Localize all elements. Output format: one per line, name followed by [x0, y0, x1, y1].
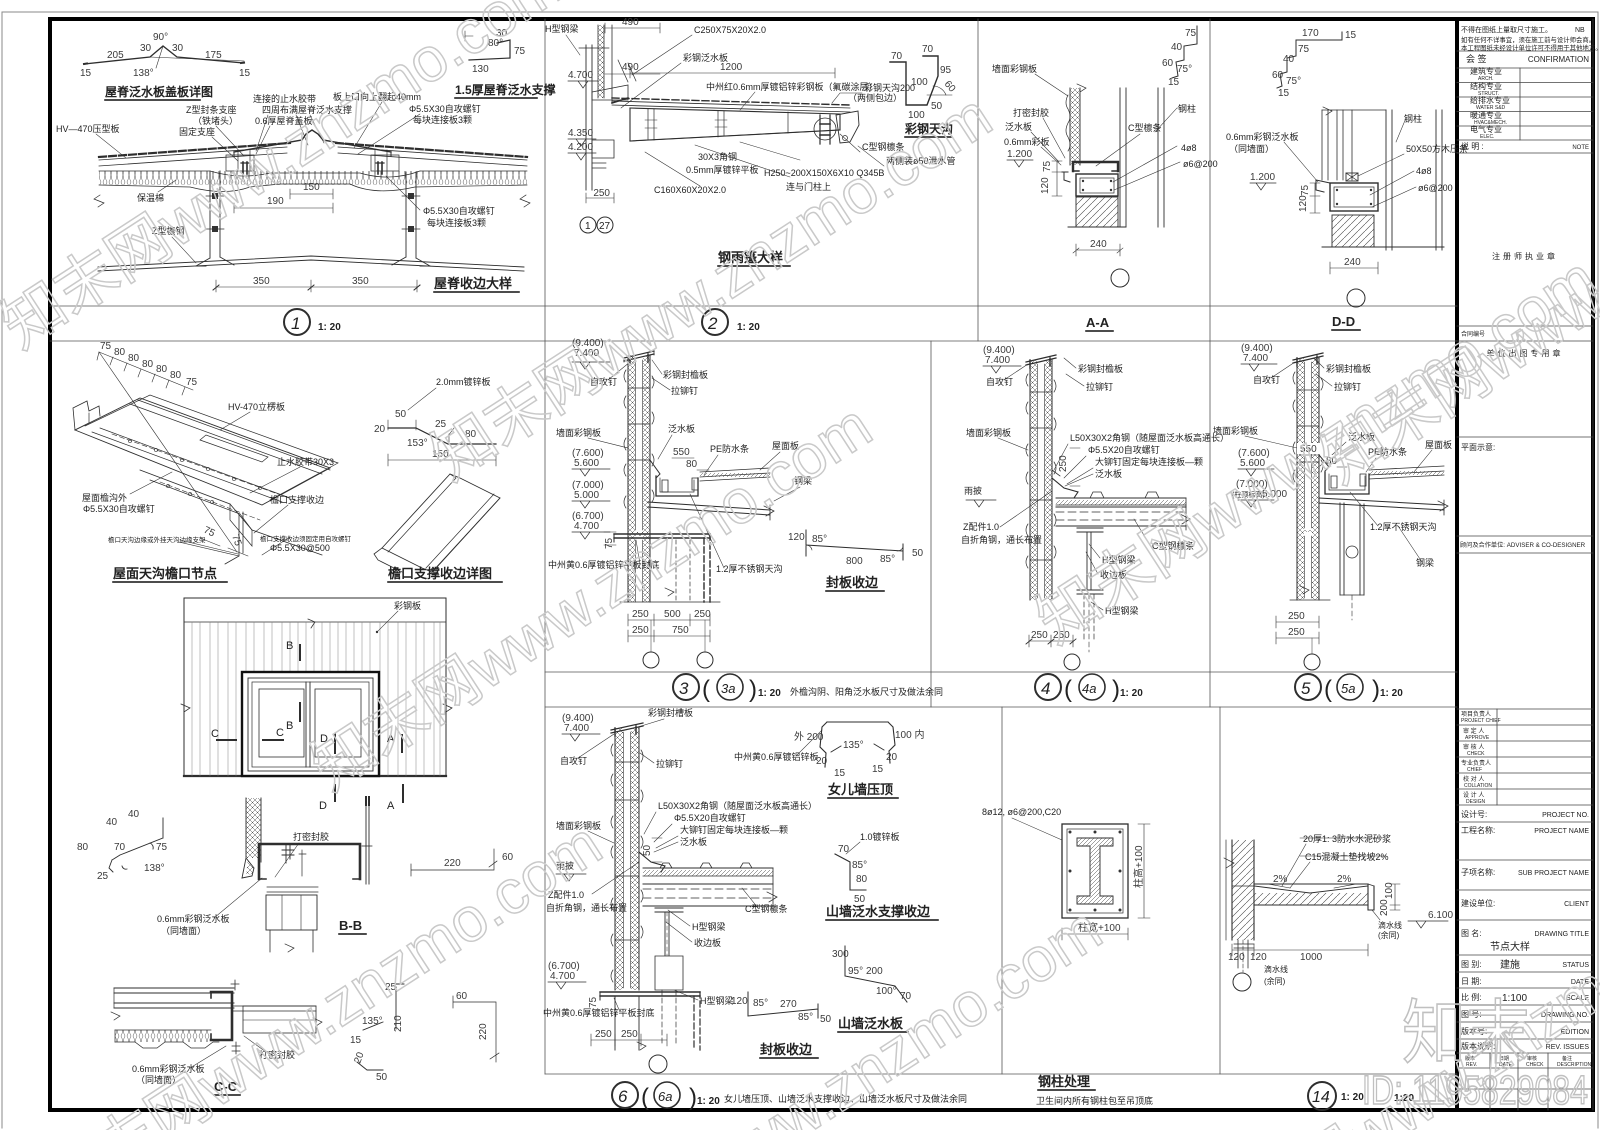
- svg-text:彩钢封檐板: 彩钢封檐板: [663, 369, 708, 380]
- svg-text:PROJECT NO.: PROJECT NO.: [1542, 812, 1589, 819]
- title: [760, 1042, 813, 1057]
- svg-text:柱高+100: 柱高+100: [1132, 845, 1145, 888]
- svg-text:(: (: [1064, 676, 1072, 703]
- flashing profile top right: [1172, 26, 1197, 78]
- right dims: [1390, 884, 1400, 910]
- dim 220/60 right: [411, 849, 497, 876]
- H column under (I elevation): [1077, 528, 1103, 532]
- svg-text:120: 120: [731, 996, 748, 1007]
- slab: [1254, 884, 1368, 893]
- C purlin above beam (thick): [1073, 162, 1118, 171]
- canopy top panel sloping: [612, 101, 850, 112]
- title D-D: [1332, 314, 1355, 329]
- gutter channel: [1325, 472, 1369, 494]
- svg-text:C: C: [211, 728, 219, 740]
- bottom chord sloped: [98, 256, 524, 271]
- svg-text:大铆钉固定每块连接板—颗: 大铆钉固定每块连接板—颗: [1095, 456, 1203, 467]
- svg-text:80: 80: [142, 359, 154, 370]
- svg-text:): ): [689, 1084, 697, 1111]
- svg-text:8ø12, ø6@200,C20: 8ø12, ø6@200,C20: [982, 807, 1061, 817]
- svg-text:120: 120: [788, 532, 805, 543]
- svg-text:20: 20: [374, 424, 386, 435]
- PE & roof labels: [710, 440, 812, 486]
- dim 240: [1330, 262, 1378, 274]
- svg-text:50X50方木压条: 50X50方木压条: [1406, 143, 1468, 154]
- right post: [406, 172, 416, 258]
- wall below with studs: [1238, 940, 1248, 968]
- eave edge drop piece: [225, 512, 243, 564]
- outer concrete rect: [1062, 824, 1128, 918]
- lower wall: [1297, 530, 1319, 600]
- section letters: [211, 640, 395, 812]
- svg-text:138°: 138°: [133, 68, 154, 79]
- leader lines top cluster: [212, 102, 420, 161]
- svg-text:15: 15: [872, 764, 884, 775]
- svg-text:1: 20: 1: 20: [1380, 688, 1403, 699]
- svg-text:APPROVE: APPROVE: [1465, 735, 1490, 741]
- svg-text:4.200: 4.200: [568, 142, 593, 153]
- svg-text:会 签: 会 签: [1466, 53, 1487, 64]
- svg-text:1.5厚屋脊泛水支撑: 1.5厚屋脊泛水支撑: [455, 82, 556, 97]
- bubble 1: [284, 309, 310, 335]
- svg-text:5.600: 5.600: [574, 458, 599, 469]
- svg-text:L50X30X2角钢（随屋面泛水板高通长）: L50X30X2角钢（随屋面泛水板高通长）: [1070, 432, 1229, 443]
- beam: [1319, 498, 1444, 510]
- svg-text:中州黄0.6厚镀铝锌板: 中州黄0.6厚镀铝锌板: [734, 751, 819, 762]
- svg-text:15: 15: [80, 68, 92, 79]
- insulation band with wavy bottom: [115, 1030, 211, 1042]
- svg-text:如有任何不详事宜，须在施工前与设计师会商。: 如有任何不详事宜，须在施工前与设计师会商。: [1461, 35, 1595, 44]
- leaders: [621, 35, 884, 186]
- svg-text:校 对 人: 校 对 人: [1463, 775, 1484, 783]
- svg-text:墙面彩钢板: 墙面彩钢板: [556, 427, 601, 438]
- svg-text:15: 15: [1168, 77, 1180, 88]
- svg-text:ø6@200: ø6@200: [1183, 159, 1218, 169]
- svg-text:山墙泛水支撑收边: 山墙泛水支撑收边: [826, 904, 931, 919]
- hatched wall strip: [246, 798, 261, 858]
- levels: [1232, 343, 1287, 500]
- title: ridge edge detail: [434, 276, 512, 291]
- svg-text:C15混凝土垫找坡2%: C15混凝土垫找坡2%: [1305, 851, 1389, 862]
- labels H beam area: [961, 521, 1195, 616]
- svg-text:C型檩条: C型檩条: [1128, 122, 1162, 133]
- H column label: [545, 23, 579, 34]
- svg-text:138°: 138°: [144, 863, 165, 874]
- levels: [548, 713, 594, 982]
- bubbles 4 (4a): [1035, 674, 1061, 700]
- svg-text:70: 70: [922, 44, 934, 55]
- title: [214, 1079, 238, 1094]
- svg-text:B: B: [286, 640, 293, 652]
- svg-text:钢柱: 钢柱: [1178, 103, 1196, 114]
- svg-text:75: 75: [156, 842, 168, 853]
- labels: [132, 1049, 295, 1085]
- bottom label: [543, 1007, 655, 1018]
- svg-text:75°: 75°: [1177, 64, 1192, 75]
- svg-text:75: 75: [1185, 28, 1197, 39]
- canopy tapered beam: [630, 108, 840, 141]
- dims: [591, 1034, 667, 1046]
- svg-text:封板收边: 封板收边: [826, 575, 879, 590]
- svg-text:14: 14: [1312, 1089, 1330, 1106]
- svg-text:中州红0.6mm厚镀铝锌彩钢板（氟碳涂层）: 中州红0.6mm厚镀铝锌彩钢板（氟碳涂层）: [706, 81, 878, 92]
- svg-text:专业负责人: 专业负责人: [1461, 759, 1491, 767]
- gutter channel going down right: [140, 470, 322, 555]
- title: [826, 575, 879, 590]
- flashing at gutter top: [650, 460, 660, 478]
- wall panel faces horizontal: [114, 988, 234, 1008]
- svg-text:240: 240: [1344, 257, 1361, 268]
- svg-text:大铆钉固定每块连接板—颗: 大铆钉固定每块连接板—颗: [680, 824, 788, 835]
- wall: [1297, 358, 1319, 530]
- svg-text:70: 70: [114, 842, 126, 853]
- bottom dims: [1029, 635, 1073, 647]
- svg-text:DRAWING TITLE: DRAWING TITLE: [1535, 931, 1590, 938]
- masonry below: [1332, 215, 1374, 247]
- svg-text:15: 15: [1345, 30, 1357, 41]
- svg-text:60: 60: [456, 991, 468, 1002]
- mullion: [306, 682, 310, 767]
- svg-text:95°: 95°: [848, 966, 863, 977]
- svg-text:4.700: 4.700: [568, 70, 593, 81]
- drip label below: [1264, 964, 1288, 986]
- level 6.100: [1428, 910, 1453, 921]
- small profile with 135: [357, 984, 404, 1070]
- svg-text:15: 15: [834, 768, 846, 779]
- svg-text:170: 170: [1302, 28, 1319, 39]
- labels: [964, 363, 1123, 496]
- I-beam inside: [1077, 838, 1113, 904]
- svg-text:80: 80: [156, 364, 168, 375]
- bottom dims: [1232, 944, 1368, 956]
- base flashing: [639, 852, 665, 872]
- svg-text:Φ5.5X30自攻螺钉: Φ5.5X30自攻螺钉: [83, 503, 155, 514]
- svg-text:5: 5: [1301, 679, 1311, 698]
- svg-text:泛水板: 泛水板: [1095, 468, 1122, 479]
- svg-text:85°: 85°: [852, 860, 867, 871]
- svg-text:1: 1: [585, 221, 591, 232]
- svg-text:2%: 2%: [1273, 874, 1288, 885]
- roof panel with ribs: [1056, 497, 1186, 499]
- svg-text:0.5mm厚镀锌平板: 0.5mm厚镀锌平板: [686, 164, 759, 175]
- inner dashed column: [676, 540, 690, 602]
- svg-text:Z型封条支座: Z型封条支座: [186, 104, 237, 115]
- beam stiffeners: [648, 109, 788, 140]
- labels top: [556, 707, 693, 831]
- 75 dims on eave: [202, 525, 244, 548]
- svg-text:500: 500: [664, 609, 681, 620]
- svg-text:给排水专业: 给排水专业: [1470, 95, 1510, 105]
- dims below: [1276, 616, 1319, 628]
- title: [113, 566, 217, 581]
- svg-text:HV—470压型板: HV—470压型板: [56, 123, 120, 134]
- svg-text:100 内: 100 内: [895, 728, 924, 741]
- svg-text:电气专业: 电气专业: [1470, 124, 1502, 134]
- svg-text:1: 20: 1: 20: [697, 1096, 720, 1107]
- dims 75 120 left: [1310, 183, 1320, 213]
- svg-text:75: 75: [1298, 44, 1310, 55]
- outer wall rect: [184, 598, 446, 776]
- right label cluster: [1070, 432, 1229, 479]
- labels: [1213, 363, 1452, 457]
- svg-text:80: 80: [686, 459, 698, 470]
- dim 250 vertical: [1058, 455, 1069, 472]
- svg-text:240: 240: [1090, 239, 1107, 250]
- column lines right: [1386, 110, 1442, 250]
- rebar dots: [1069, 831, 1072, 834]
- svg-text:审 定 人: 审 定 人: [1463, 727, 1484, 735]
- dims 550 80: [1297, 443, 1321, 454]
- screws cluster at sill: [282, 845, 294, 863]
- svg-text:1: 20: 1: 20: [1120, 688, 1143, 699]
- labels above: [1303, 833, 1391, 862]
- flashing: [1319, 455, 1329, 471]
- wall: [1030, 360, 1052, 600]
- right roof thick dashed top: [336, 143, 527, 157]
- svg-text:檐口支撑收边详图: 檐口支撑收边详图: [388, 566, 492, 581]
- bottom flashing L (thick dashed): [614, 534, 710, 538]
- svg-text:30: 30: [140, 43, 152, 54]
- svg-text:75: 75: [1042, 160, 1053, 172]
- svg-text:70: 70: [838, 844, 850, 855]
- svg-text:): ): [749, 676, 757, 703]
- cap: [611, 723, 643, 733]
- label 彩钢天沟200: [864, 82, 915, 93]
- svg-text:CLIENT: CLIENT: [1564, 901, 1590, 908]
- svg-text:外檐沟阴、阳角泛水板尺寸及做法余同: 外檐沟阴、阳角泛水板尺寸及做法余同: [790, 686, 943, 697]
- svg-text:40: 40: [106, 817, 118, 828]
- svg-text:250: 250: [632, 625, 649, 636]
- svg-text:350: 350: [352, 276, 369, 287]
- svg-text:屋脊收边大样: 屋脊收边大样: [434, 276, 512, 291]
- svg-text:Φ5.5X30自攻螺钉: Φ5.5X30自攻螺钉: [423, 205, 495, 216]
- label 2.0mm: [436, 376, 491, 387]
- 3d bent plate: [382, 474, 500, 572]
- svg-text:150: 150: [303, 182, 320, 193]
- svg-text:彩钢天沟200: 彩钢天沟200: [864, 82, 915, 93]
- level 4.700: [568, 70, 593, 81]
- label 彩钢板: [394, 600, 421, 611]
- column vertical lines: [586, 45, 592, 190]
- top panel slab (parallelogram): [75, 398, 330, 505]
- label Z purlin: [152, 225, 185, 236]
- svg-text:滴水线: 滴水线: [1264, 964, 1288, 974]
- post feet: [196, 257, 430, 266]
- svg-text:3: 3: [679, 679, 689, 698]
- svg-text:止水胶带30X3: 止水胶带30X3: [277, 456, 334, 467]
- inner rails: [92, 400, 330, 502]
- title block texts: [1460, 25, 1600, 1068]
- labels right: [1128, 103, 1218, 169]
- svg-text:200: 200: [1379, 899, 1390, 916]
- svg-text:205: 205: [107, 50, 124, 61]
- title: [828, 782, 893, 797]
- lower wall: [628, 532, 650, 602]
- svg-text:L50X30X2角钢（随屋面泛水板高通长）: L50X30X2角钢（随屋面泛水板高通长）: [658, 800, 817, 811]
- layout divider row2/row3: [545, 706, 1457, 708]
- svg-text:6.100: 6.100: [1428, 910, 1453, 921]
- svg-text:60: 60: [1272, 70, 1284, 81]
- svg-text:彩钢封槽板: 彩钢封槽板: [648, 707, 693, 718]
- svg-text:4.700: 4.700: [550, 971, 575, 982]
- title: ridge flashing cover plate detail: [105, 84, 213, 99]
- svg-text:中州黄0.6厚镀铝锌平板封底: 中州黄0.6厚镀铝锌平板封底: [543, 1007, 655, 1018]
- svg-text:每块连接板3颗: 每块连接板3颗: [413, 114, 472, 125]
- purlin band with dashed lines: [1056, 507, 1186, 526]
- svg-text:40: 40: [128, 809, 140, 820]
- wall panel: [1070, 88, 1080, 165]
- window head flashing thick C open down: [259, 844, 360, 879]
- left post: [210, 171, 220, 258]
- svg-text:钢柱: 钢柱: [1404, 113, 1422, 124]
- title: [904, 121, 953, 136]
- svg-text:日 期:: 日 期:: [1461, 977, 1481, 986]
- svg-text:卫生间内所有钢柱包至吊顶底: 卫生间内所有钢柱包至吊顶底: [1036, 1095, 1153, 1106]
- wall base flashing step: [1052, 478, 1078, 498]
- svg-text:2%: 2%: [1337, 874, 1352, 885]
- svg-text:墙面彩钢板: 墙面彩钢板: [1213, 425, 1258, 436]
- svg-text:0.6mm彩板: 0.6mm彩板: [1004, 136, 1050, 147]
- svg-text:C160X60X20X2.0: C160X60X20X2.0: [654, 185, 726, 195]
- dim 550 / 80: [669, 446, 693, 457]
- svg-text:75: 75: [100, 341, 112, 352]
- gutter at end: [836, 111, 859, 143]
- 2% slope arrows: [1268, 884, 1356, 888]
- ridge cap profile small drawing: [84, 46, 244, 68]
- svg-text:本工程图纸未经设计单位许可不得用于其他地方。: 本工程图纸未经设计单位许可不得用于其他地方。: [1461, 43, 1600, 52]
- svg-text:75: 75: [514, 46, 526, 57]
- break at top: [1077, 84, 1086, 92]
- bubbles 6 (6a): [612, 1082, 638, 1108]
- vertical divider row2 detail3/detail4: [930, 341, 932, 707]
- ridge cap profile dims: [80, 32, 251, 79]
- svg-text:每块连接板3颗: 每块连接板3颗: [427, 217, 486, 228]
- svg-text:80: 80: [128, 353, 140, 364]
- vertical divider row3 detail6/steelcol: [1001, 707, 1003, 1074]
- H column with hole: [1340, 503, 1364, 595]
- svg-text:750: 750: [672, 625, 689, 636]
- vertical divider row1 A-A/D-D: [1209, 19, 1211, 707]
- svg-text:设计号:: 设计号:: [1461, 809, 1487, 819]
- svg-text:): ): [1372, 676, 1380, 703]
- svg-text:彩钢封檐板: 彩钢封檐板: [1078, 363, 1123, 374]
- beam sloping: [648, 502, 770, 515]
- bubble 14: [1308, 1082, 1336, 1110]
- svg-text:D: D: [319, 800, 327, 812]
- profile: [388, 428, 496, 444]
- bubbles 5 (5a): [1295, 674, 1321, 700]
- label insulation: [137, 192, 164, 203]
- screws top: [630, 354, 648, 364]
- inner slot: [200, 435, 268, 462]
- svg-text:80: 80: [77, 842, 89, 853]
- svg-text:（两侧包边）: （两侧包边）: [848, 92, 902, 103]
- title: [718, 250, 783, 265]
- svg-text:120: 120: [1040, 177, 1051, 194]
- svg-text:30: 30: [172, 43, 184, 54]
- svg-text:(余同): (余同): [1264, 976, 1286, 986]
- svg-text:250: 250: [1058, 455, 1069, 472]
- right roof panel double line: [338, 147, 527, 166]
- svg-text:泛水板: 泛水板: [668, 423, 695, 434]
- svg-text:DESIGN: DESIGN: [1466, 799, 1486, 805]
- svg-text:120: 120: [1298, 195, 1309, 212]
- svg-text:C250X75X20X2.0: C250X75X20X2.0: [694, 25, 766, 35]
- svg-text:5a: 5a: [1341, 681, 1355, 696]
- svg-text:COLLATION: COLLATION: [1464, 783, 1492, 789]
- levels: [572, 338, 604, 532]
- svg-text:4a: 4a: [1082, 681, 1096, 696]
- svg-text:H型钢梁: H型钢梁: [700, 995, 734, 1006]
- svg-text:1.200: 1.200: [1007, 149, 1032, 160]
- svg-text:4ø8: 4ø8: [1181, 143, 1197, 153]
- svg-text:备注: 备注: [1562, 1055, 1572, 1062]
- svg-text:2.0mm镀锌板: 2.0mm镀锌板: [436, 376, 491, 387]
- svg-text:子项名称:: 子项名称:: [1461, 867, 1495, 877]
- dim 150: [388, 454, 496, 466]
- svg-text:B-B: B-B: [339, 918, 362, 933]
- wall hatched: [1232, 840, 1254, 940]
- svg-text:审 核 人: 审 核 人: [1463, 743, 1484, 751]
- svg-text:屋面天沟檐口节点: 屋面天沟檐口节点: [113, 566, 217, 581]
- svg-text:图 别:: 图 别:: [1461, 960, 1481, 969]
- svg-text:滴水线: 滴水线: [1378, 920, 1402, 930]
- svg-text:250: 250: [1288, 627, 1305, 638]
- svg-text:550: 550: [673, 447, 690, 458]
- layout divider bottom strip: [545, 1073, 1457, 1075]
- labels beam: [546, 889, 788, 1006]
- svg-text:20: 20: [352, 1050, 366, 1065]
- svg-text:): ): [1112, 676, 1120, 703]
- svg-text:CHIEF: CHIEF: [1467, 767, 1482, 773]
- svg-text:1: 1: [291, 314, 300, 333]
- bubbles 1 27: [580, 217, 596, 233]
- right label cluster: [658, 800, 817, 847]
- bracket at column: [592, 85, 628, 100]
- svg-text:60: 60: [1162, 58, 1174, 69]
- svg-text:打密封胶: 打密封胶: [1013, 107, 1049, 118]
- svg-text:250: 250: [694, 609, 711, 620]
- svg-text:75: 75: [1300, 184, 1311, 196]
- svg-text:固定支座: 固定支座: [179, 126, 215, 137]
- svg-text:95: 95: [940, 65, 952, 76]
- levels: [983, 345, 1015, 366]
- svg-text:85°: 85°: [798, 1012, 813, 1023]
- svg-text:250: 250: [595, 1029, 612, 1040]
- svg-text:暖通专业: 暖通专业: [1470, 110, 1502, 120]
- svg-text:210: 210: [393, 1015, 404, 1032]
- main ridge section: left roof panel double line: [99, 147, 287, 166]
- siding vertical lines: [192, 622, 440, 776]
- break marks: [181, 619, 452, 712]
- svg-text:A: A: [387, 800, 395, 812]
- svg-text:40: 40: [1171, 42, 1183, 53]
- sealant label: [293, 831, 329, 842]
- svg-text:结构专业: 结构专业: [1470, 81, 1502, 91]
- screws on cap: [243, 162, 382, 174]
- svg-text:NOTE: NOTE: [1572, 145, 1589, 151]
- vertical divider row3 steelcol/detail14: [1219, 707, 1221, 1074]
- svg-text:1200: 1200: [720, 62, 743, 73]
- dim 150: [290, 189, 333, 199]
- svg-text:自攻钉: 自攻钉: [560, 755, 587, 766]
- flashing hook left: [1062, 172, 1070, 182]
- title: 1.5 ridge flashing support: [455, 82, 556, 97]
- underside line: [630, 130, 840, 141]
- small angle profile left: [109, 818, 163, 872]
- vertical divider row1 detail2/A-A: [977, 19, 979, 341]
- title: [826, 904, 931, 919]
